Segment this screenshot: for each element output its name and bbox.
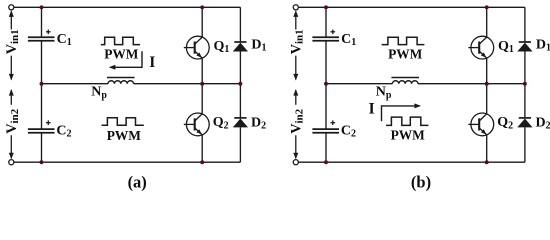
diode D1 <box>517 7 532 83</box>
capacitor C1 <box>28 30 55 41</box>
wire C column lower (b) <box>325 133 327 163</box>
diode D2 <box>517 84 532 163</box>
wire C column lower (a) <box>41 133 43 163</box>
junction <box>40 5 44 9</box>
capacitor C2 <box>28 120 55 132</box>
wire C column mid-upper (a) <box>41 41 43 84</box>
current arrow I (b) <box>382 103 422 121</box>
input terminal top (b) <box>293 5 298 10</box>
input terminal bottom (b) <box>293 160 298 165</box>
svg-text:PWM: PWM <box>388 47 423 62</box>
transistor Q1 <box>184 7 209 83</box>
svg-text:(a): (a) <box>128 172 147 191</box>
wire C column mid-upper (b) <box>325 41 327 84</box>
junction <box>523 82 527 86</box>
junction <box>485 82 489 86</box>
current arrow I (a) <box>109 51 142 70</box>
wire middle rail right segment (a) <box>134 83 241 85</box>
label Vin1 (b) <box>289 29 306 54</box>
inductor Np (a) primary winding <box>107 78 135 84</box>
capacitor C1 <box>312 30 339 41</box>
wire top rail (b) <box>298 6 525 8</box>
transistor Q2 <box>468 84 493 163</box>
label Vin2 (b) <box>289 108 306 133</box>
svg-text:I: I <box>149 54 155 71</box>
PWM waveform upper (b) <box>382 37 425 44</box>
junction <box>324 82 328 86</box>
wire middle rail left segment (a) <box>42 83 109 85</box>
PWM waveform lower (b) <box>386 117 428 125</box>
diode D2 <box>233 84 248 163</box>
junction <box>324 5 328 9</box>
voltage arrow Vin2 (b) <box>293 89 298 159</box>
junction <box>200 82 204 86</box>
PWM waveform lower (a) <box>102 118 144 125</box>
wire C column upper (a) <box>41 7 43 37</box>
diode D1 <box>233 7 248 83</box>
junction <box>324 160 328 164</box>
inductor Np (b) primary winding <box>391 78 419 84</box>
label Vin1 (a) <box>4 29 21 54</box>
capacitor C2 <box>312 120 339 132</box>
transistor Q2 <box>184 84 209 163</box>
junction <box>485 160 489 164</box>
wire bottom rail (a) <box>14 161 241 163</box>
svg-text:PWM: PWM <box>104 47 139 62</box>
voltage arrow Vin1 (b) <box>293 10 298 80</box>
wire C column mid-lower (b) <box>325 84 327 130</box>
wire middle rail left segment (b) <box>326 83 392 85</box>
junction <box>200 160 204 164</box>
PWM waveform upper (a) <box>101 37 140 44</box>
transistor Q1 <box>468 7 493 83</box>
wire bottom rail (b) <box>298 161 525 163</box>
wire top rail (a) <box>14 6 241 8</box>
svg-text:(b): (b) <box>411 172 431 191</box>
input terminal top (a) <box>9 5 14 10</box>
junction <box>40 160 44 164</box>
wire C column mid-lower (a) <box>41 84 43 130</box>
svg-text:PWM: PWM <box>107 128 142 143</box>
junction <box>40 82 44 86</box>
junction <box>238 82 242 86</box>
wire C column upper (b) <box>325 7 327 37</box>
svg-text:I: I <box>369 101 375 118</box>
input terminal bottom (a) <box>9 160 14 165</box>
voltage arrow Vin2 (a) <box>9 89 14 159</box>
wire middle rail right segment (b) <box>418 83 525 85</box>
svg-text:PWM: PWM <box>391 128 426 143</box>
junction <box>200 5 204 9</box>
voltage arrow Vin1 (a) <box>9 10 14 80</box>
label Vin2 (a) <box>4 108 21 133</box>
junction <box>485 5 489 9</box>
